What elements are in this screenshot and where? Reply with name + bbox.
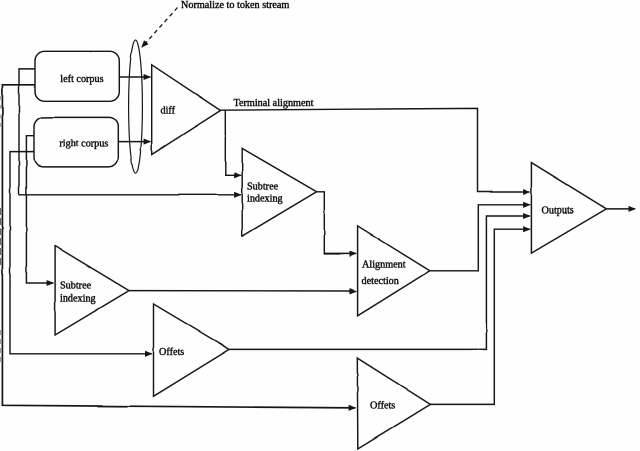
triangle offets middle (154, 304, 230, 396)
wire left corpus tap to offets bottom input (2, 85, 355, 408)
svg-text:Alignment: Alignment (362, 260, 406, 271)
wire branch to subtree upper input 1 (225, 110, 241, 175)
svg-text:detection: detection (362, 276, 399, 287)
triangle subtree indexing lower (55, 246, 129, 335)
wire offets bottom output to outputs input 4 (430, 229, 530, 404)
triangle outputs (531, 163, 606, 254)
wire right corpus tap to offets middle input (10, 152, 152, 354)
svg-text:Offets: Offets (159, 347, 184, 358)
box left corpus (35, 51, 119, 101)
scan edge artifact left margin (0, 208, 2, 266)
wire left corpus tap to subtree upper input 2 (19, 69, 241, 195)
wire subtree upper output to alignment detection input 1 (317, 192, 357, 254)
triangle subtree indexing upper (242, 148, 316, 236)
wire subtree lower output to alignment detection input 2 (129, 290, 356, 292)
box right corpus (34, 117, 118, 166)
wire alignment detection output to outputs input 2 (430, 205, 530, 271)
triangle alignment detection (358, 226, 430, 316)
svg-text:left corpus: left corpus (60, 74, 103, 85)
svg-text:right corpus: right corpus (59, 139, 108, 150)
wire offets middle output to outputs input 3 (230, 216, 530, 349)
wire right corpus tap to subtree lower input (26, 136, 53, 283)
wire left corpus to diff (120, 76, 151, 78)
svg-text:indexing: indexing (247, 194, 283, 205)
wire outputs final arrow (606, 208, 635, 210)
svg-text:diff: diff (161, 106, 176, 117)
dashed callout arrow (142, 8, 178, 48)
svg-text:Offets: Offets (370, 401, 395, 412)
svg-text:Subtree: Subtree (60, 280, 92, 291)
wire right corpus to diff (119, 141, 151, 143)
svg-text:Outputs: Outputs (542, 205, 574, 216)
svg-text:Subtree: Subtree (247, 181, 279, 192)
triangle offets bottom (357, 358, 430, 449)
svg-text:indexing: indexing (60, 294, 96, 305)
triangle diff (152, 65, 221, 155)
wire terminal alignment: diff tip to outputs input 1 (221, 108, 530, 192)
svg-text:Normalize to token stream: Normalize to token stream (181, 0, 289, 11)
ellipse token-stream normalizer (129, 40, 143, 173)
svg-text:Terminal alignment: Terminal alignment (234, 98, 314, 109)
